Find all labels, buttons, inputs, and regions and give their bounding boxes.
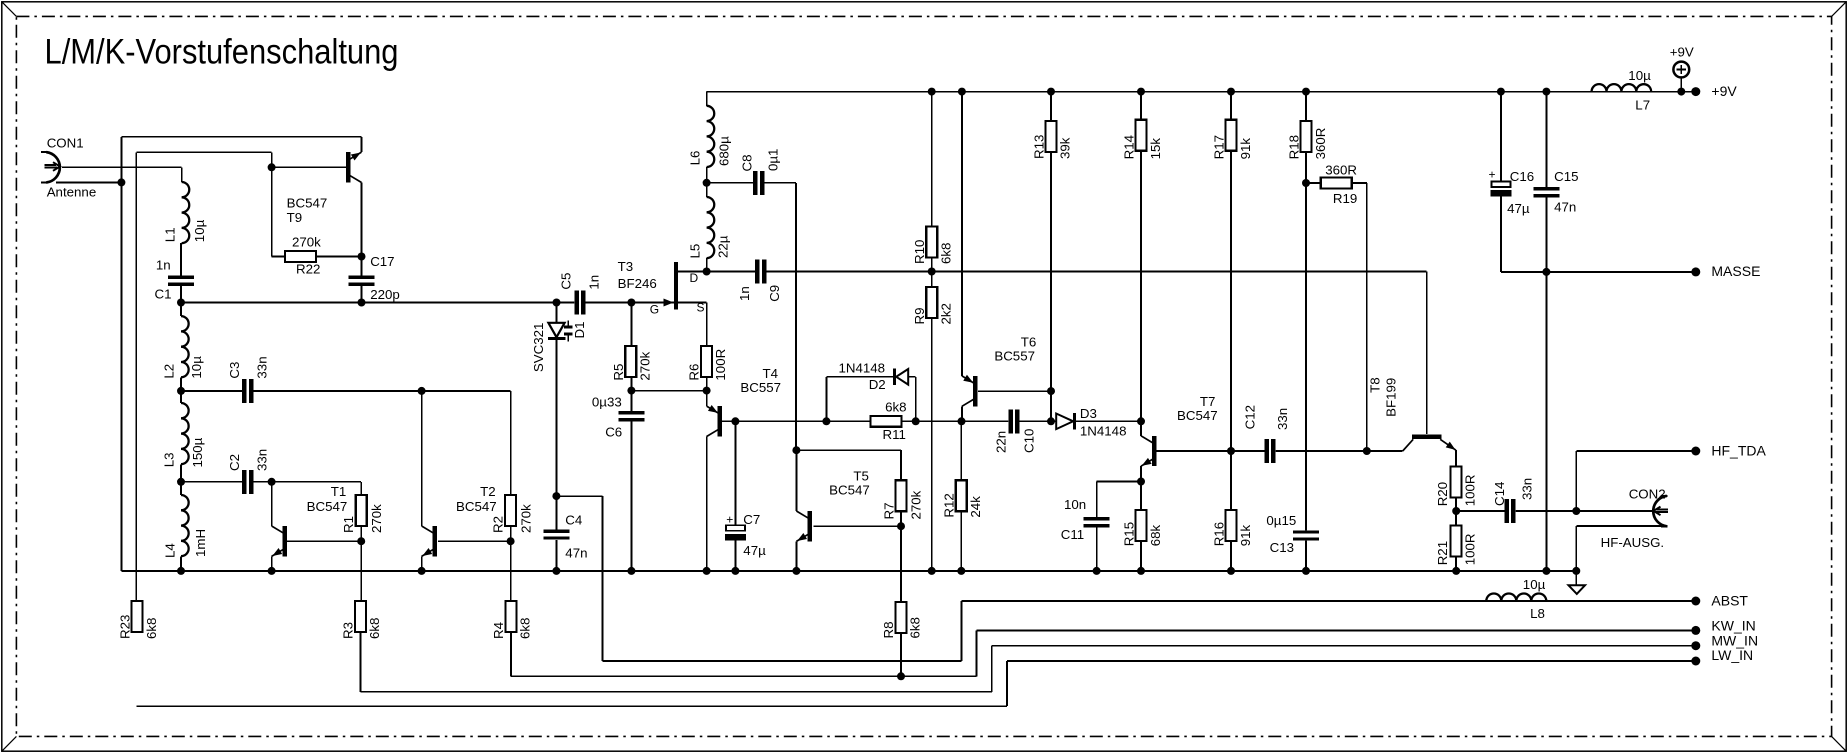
svg-text:C17: C17: [370, 254, 394, 269]
svg-text:HF_TDA: HF_TDA: [1711, 443, 1766, 459]
svg-text:R18: R18: [1286, 135, 1301, 159]
svg-text:BF199: BF199: [1383, 378, 1398, 417]
svg-text:C12: C12: [1243, 405, 1258, 429]
svg-text:10µ: 10µ: [1523, 577, 1546, 592]
svg-text:BC547: BC547: [307, 499, 348, 514]
svg-text:R14: R14: [1121, 135, 1136, 159]
svg-text:L2: L2: [161, 364, 176, 379]
svg-text:D1: D1: [572, 322, 587, 339]
svg-text:C15: C15: [1554, 169, 1578, 184]
svg-text:6k8: 6k8: [885, 399, 906, 414]
svg-text:R2: R2: [491, 516, 506, 533]
svg-text:L8: L8: [1530, 606, 1545, 621]
svg-text:R9: R9: [912, 308, 927, 325]
svg-text:T8: T8: [1367, 377, 1382, 393]
svg-text:10µ: 10µ: [1628, 68, 1651, 83]
svg-text:C14: C14: [1492, 482, 1507, 506]
svg-text:47n: 47n: [1554, 200, 1576, 215]
svg-text:22µ: 22µ: [716, 235, 731, 258]
svg-text:1mH: 1mH: [193, 529, 208, 557]
svg-text:91k: 91k: [1238, 138, 1253, 160]
svg-text:R20: R20: [1435, 482, 1450, 506]
svg-text:L3: L3: [161, 453, 176, 468]
svg-text:D2: D2: [869, 377, 886, 392]
svg-text:2k2: 2k2: [939, 303, 954, 324]
svg-text:10µ: 10µ: [189, 356, 204, 379]
svg-text:T1: T1: [331, 484, 347, 499]
svg-text:C10: C10: [1021, 429, 1036, 453]
svg-text:C4: C4: [565, 512, 582, 527]
svg-text:91k: 91k: [1238, 525, 1253, 547]
svg-text:D: D: [690, 271, 699, 285]
svg-text:MW_IN: MW_IN: [1711, 632, 1758, 648]
svg-text:R23: R23: [118, 615, 133, 639]
svg-text:R5: R5: [611, 364, 626, 381]
svg-text:1n: 1n: [737, 286, 752, 301]
svg-text:47µ: 47µ: [743, 543, 766, 558]
svg-text:LW_IN: LW_IN: [1711, 647, 1753, 663]
svg-text:68k: 68k: [1148, 525, 1163, 547]
svg-text:KW_IN: KW_IN: [1711, 618, 1755, 634]
svg-text:+9V: +9V: [1670, 44, 1694, 59]
svg-text:6k8: 6k8: [908, 617, 923, 638]
svg-text:33n: 33n: [1520, 478, 1535, 500]
svg-text:R17: R17: [1211, 135, 1226, 159]
svg-text:+9V: +9V: [1711, 83, 1737, 99]
svg-text:C7: C7: [743, 512, 760, 527]
svg-text:33n: 33n: [255, 356, 270, 378]
svg-text:R15: R15: [1121, 522, 1136, 546]
svg-text:1n: 1n: [587, 275, 602, 290]
svg-text:270k: 270k: [908, 490, 923, 519]
svg-text:360R: 360R: [1325, 162, 1357, 177]
svg-text:R1: R1: [341, 516, 356, 533]
svg-text:L/M/K-Vorstufenschaltung: L/M/K-Vorstufenschaltung: [45, 33, 399, 72]
svg-text:150µ: 150µ: [190, 437, 205, 467]
svg-text:T6: T6: [1021, 335, 1037, 350]
svg-text:T2: T2: [480, 484, 496, 499]
svg-text:0µ33: 0µ33: [592, 395, 622, 410]
svg-text:+: +: [1489, 167, 1496, 181]
svg-text:MASSE: MASSE: [1711, 263, 1760, 279]
svg-text:ABST: ABST: [1711, 593, 1748, 609]
svg-text:R19: R19: [1333, 191, 1357, 206]
svg-text:24k: 24k: [968, 496, 983, 518]
svg-text:R4: R4: [491, 622, 506, 639]
svg-text:R8: R8: [881, 622, 896, 639]
svg-text:SVC321: SVC321: [531, 323, 546, 373]
svg-text:360R: 360R: [1313, 128, 1328, 160]
svg-text:L1: L1: [162, 227, 177, 242]
svg-text:1N4148: 1N4148: [839, 361, 886, 376]
svg-text:R13: R13: [1031, 135, 1046, 159]
svg-text:HF-AUSG.: HF-AUSG.: [1601, 535, 1665, 550]
svg-text:L6: L6: [688, 151, 703, 166]
svg-text:100R: 100R: [1462, 534, 1477, 566]
svg-text:33n: 33n: [255, 449, 270, 471]
svg-text:L5: L5: [688, 244, 703, 259]
svg-text:C3: C3: [227, 362, 242, 379]
svg-text:R10: R10: [912, 240, 927, 264]
svg-text:R6: R6: [687, 364, 702, 381]
svg-text:L7: L7: [1635, 97, 1650, 112]
svg-text:CON2: CON2: [1629, 486, 1666, 501]
svg-text:BC557: BC557: [740, 380, 781, 395]
svg-text:BC547: BC547: [456, 499, 497, 514]
svg-text:T3: T3: [618, 259, 634, 274]
svg-text:Antenne: Antenne: [47, 184, 97, 199]
svg-text:100R: 100R: [1462, 475, 1477, 507]
svg-text:R3: R3: [341, 622, 356, 639]
svg-text:BC547: BC547: [287, 195, 328, 210]
svg-text:6k8: 6k8: [939, 243, 954, 264]
svg-text:R12: R12: [941, 493, 956, 517]
svg-text:6k8: 6k8: [517, 618, 532, 639]
svg-text:10n: 10n: [1064, 497, 1086, 512]
svg-text:270k: 270k: [369, 504, 384, 533]
svg-text:R22: R22: [296, 262, 320, 277]
svg-text:CON1: CON1: [47, 135, 84, 150]
svg-text:C1: C1: [155, 287, 172, 302]
svg-text:270k: 270k: [637, 351, 652, 380]
svg-text:BF246: BF246: [618, 276, 657, 291]
svg-text:47n: 47n: [565, 546, 587, 561]
svg-text:R21: R21: [1435, 541, 1450, 565]
svg-text:L4: L4: [163, 543, 178, 558]
svg-text:C9: C9: [767, 285, 782, 302]
svg-text:C6: C6: [605, 424, 622, 439]
svg-text:BC547: BC547: [829, 482, 870, 497]
svg-text:10µ: 10µ: [192, 219, 207, 242]
svg-text:100R: 100R: [713, 349, 728, 381]
svg-text:R11: R11: [883, 427, 906, 442]
svg-text:S: S: [697, 300, 705, 314]
svg-text:C13: C13: [1270, 540, 1294, 555]
svg-text:C11: C11: [1061, 527, 1084, 542]
svg-text:47µ: 47µ: [1507, 201, 1530, 216]
svg-text:G: G: [650, 303, 659, 317]
svg-text:T9: T9: [287, 210, 303, 225]
svg-text:39k: 39k: [1058, 137, 1073, 159]
svg-text:D3: D3: [1080, 406, 1097, 421]
svg-text:BC557: BC557: [994, 349, 1035, 364]
svg-text:220p: 220p: [370, 287, 400, 302]
svg-text:C16: C16: [1510, 169, 1534, 184]
svg-text:0µ1: 0µ1: [766, 149, 781, 171]
svg-text:270k: 270k: [292, 234, 321, 249]
svg-text:1n: 1n: [156, 258, 171, 273]
svg-text:R7: R7: [882, 503, 897, 520]
svg-text:C5: C5: [558, 273, 573, 290]
svg-text:15k: 15k: [1148, 138, 1163, 160]
svg-text:R16: R16: [1211, 522, 1226, 546]
svg-text:+: +: [726, 513, 733, 527]
svg-text:C2: C2: [227, 454, 242, 471]
svg-text:T5: T5: [853, 468, 869, 483]
svg-text:22n: 22n: [994, 431, 1009, 453]
svg-text:680µ: 680µ: [717, 136, 732, 166]
svg-text:0µ15: 0µ15: [1266, 513, 1296, 528]
svg-text:BC547: BC547: [1177, 408, 1218, 423]
svg-text:C8: C8: [740, 155, 755, 172]
svg-text:6k8: 6k8: [144, 618, 159, 639]
svg-text:33n: 33n: [1275, 408, 1290, 430]
svg-text:1N4148: 1N4148: [1080, 424, 1127, 439]
svg-text:270k: 270k: [518, 504, 533, 533]
svg-text:6k8: 6k8: [367, 618, 382, 639]
